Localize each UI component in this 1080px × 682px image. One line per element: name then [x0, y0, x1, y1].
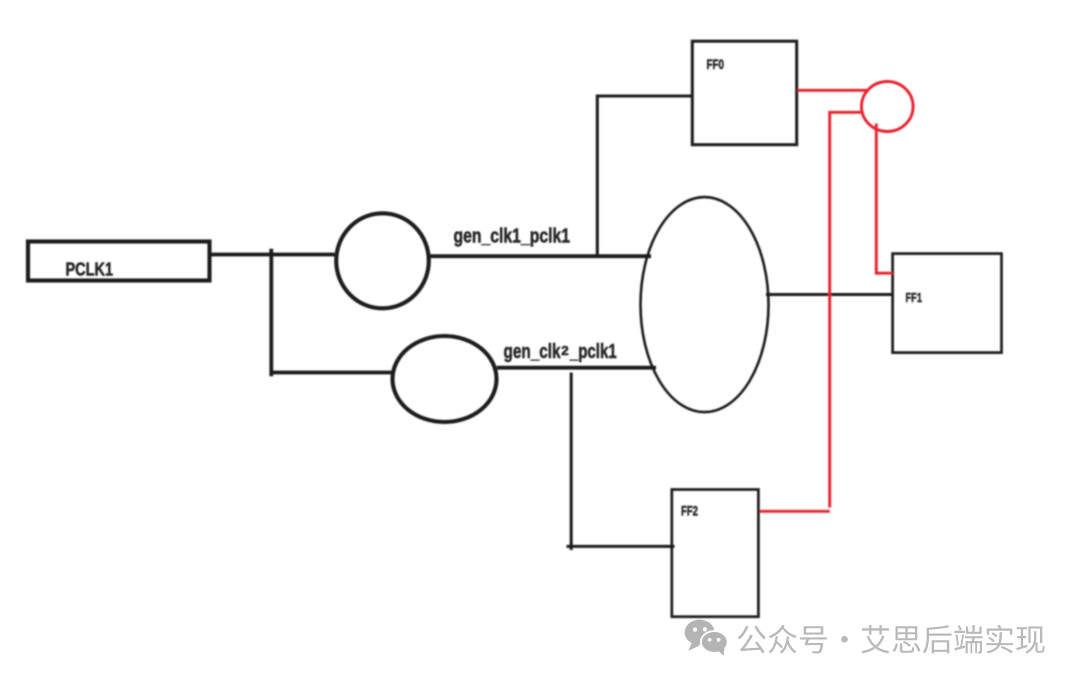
wire branch node to ICG2	[271, 371, 395, 375]
watermark wechat icon: small bubble tail	[718, 648, 724, 656]
flip-flop FF0 box	[692, 41, 796, 145]
red wire buffer to FF1 data pin	[876, 124, 892, 274]
svg-text:2: 2	[561, 343, 569, 358]
watermark text 公众号·艾思后端实现	[738, 625, 1045, 654]
watermark wechat icon: big bubble eyes	[693, 627, 707, 631]
watermark wechat icon: big bubble	[685, 620, 715, 651]
flip-flop FF1 box	[893, 254, 1002, 353]
input port PCLK1	[28, 242, 210, 281]
red wire buffer to FF2 data (vertical run)	[830, 112, 862, 507]
wire net gen_clk1_pclk1 to FF0 clock pin	[597, 96, 692, 257]
wire net gen_clk2_pclk1 to FF2 clock pin (vertical)	[570, 373, 573, 551]
clock mux (big ellipse)	[641, 197, 769, 412]
clock gate ICG2 (ellipse)	[393, 336, 497, 422]
red wire FF0 output to buffer input	[798, 89, 869, 92]
watermark wechat icon: small bubble eyes	[708, 638, 721, 642]
wire mux output to FF1 clock pin	[766, 293, 893, 296]
svg-text:FF0: FF0	[707, 57, 725, 72]
svg-text:_pclk1: _pclk1	[569, 341, 617, 363]
svg-text:PCLK1: PCLK1	[66, 260, 114, 280]
red clock buffer (circle)	[862, 82, 914, 132]
wire branch node vertical (node pclk1)	[269, 249, 273, 376]
svg-text:FF1: FF1	[906, 291, 923, 305]
svg-text:FF2: FF2	[681, 503, 698, 518]
wire ICG1 to mux, net gen_clk1_pclk1	[429, 254, 651, 258]
wire ICG2 to mux, net gen_clk2_pclk1	[497, 366, 656, 370]
flip-flop FF2 box	[672, 490, 759, 617]
red wire into FF2 data pin	[760, 510, 830, 513]
wire PCLK1 output to branch node	[210, 253, 335, 257]
wire to FF2 clock pin (horizontal)	[567, 545, 675, 548]
watermark wechat icon: small bubble	[701, 631, 728, 653]
clock gate ICG1 (circle)	[336, 213, 429, 308]
svg-text:gen_clk1_pclk1: gen_clk1_pclk1	[454, 225, 571, 247]
svg-text:gen_clk: gen_clk	[504, 341, 562, 363]
